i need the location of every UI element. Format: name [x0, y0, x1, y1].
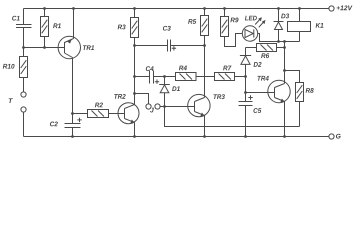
capacitor C5 (polarized) — [239, 93, 262, 138]
diode D2 — [240, 48, 262, 77]
terminal +12V — [329, 6, 334, 11]
diode D1 — [159, 75, 180, 106]
resistor R5 — [188, 7, 208, 97]
resistor R7 — [215, 66, 247, 81]
transistor TR4 (NPN) — [257, 40, 290, 138]
terminal T (input jack pair) — [9, 92, 26, 112]
wire top +12V rail — [24, 8, 329, 10]
diode D3 — [274, 7, 290, 43]
resistor R10 — [3, 48, 28, 92]
resistor R8 — [285, 71, 314, 127]
wire TR4 base node — [244, 77, 274, 94]
resistor R9 — [221, 7, 243, 46]
capacitor C4 (polarized) — [133, 66, 175, 84]
capacitor C3 (polarized) — [133, 26, 206, 52]
wire TR3 base node down to C5 lead — [165, 107, 300, 127]
capacitor C1 — [12, 9, 31, 48]
relay K1 — [288, 7, 324, 41]
terminal G — [329, 134, 334, 139]
resistor R6 — [246, 44, 286, 59]
wire R4 to R7 — [196, 76, 215, 78]
wire bottom ground rail — [24, 136, 329, 138]
transistor TR2 (NPN) — [114, 94, 139, 138]
connector J (jack pair) — [133, 92, 194, 112]
resistor R1 — [41, 7, 61, 47]
resistor R4 — [176, 66, 197, 81]
capacitor C2 (polarized) — [50, 114, 82, 138]
transistor TR1 (PNP) — [58, 7, 94, 113]
LED — [242, 16, 299, 42]
resistor R3 — [118, 7, 139, 104]
transistor TR3 (NPN) — [188, 94, 225, 138]
resistor R2 — [71, 103, 124, 118]
wire T lower circle to ground rail — [23, 112, 25, 136]
node base row of TR1 — [22, 46, 64, 49]
